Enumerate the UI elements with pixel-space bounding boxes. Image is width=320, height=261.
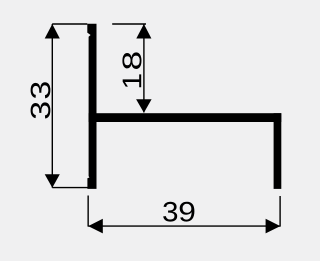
extension line bottom (for dim 33) [52, 187, 88, 189]
profile right flange (vertical bar) [274, 113, 282, 189]
extension line bottom-right (for dim 39) [279, 196, 281, 227]
label 18 (rotated) [122, 52, 141, 87]
dimension line 39 (horizontal) [88, 225, 280, 227]
arrowhead 18 top [136, 24, 151, 39]
dimension line 18 (vertical) [143, 24, 145, 112]
extension line bottom-left (for dim 39) [87, 196, 89, 227]
arrowhead 39 left [88, 219, 103, 234]
arrowhead 18 bottom [136, 99, 152, 113]
label 33 (rotated) [31, 82, 51, 118]
dimension line 33 (vertical) [51, 24, 53, 188]
profile web (horizontal bar) [89, 113, 282, 122]
arrowhead 33 bottom [45, 174, 60, 188]
profile left flange (vertical bar) [87, 24, 96, 189]
extension line top-left (for dim 33) [52, 23, 87, 25]
label 39 [163, 202, 194, 222]
arrowhead 39 right [266, 219, 281, 234]
extension line top-right (for dim 18) [112, 23, 146, 25]
arrowhead 33 top [45, 24, 60, 39]
